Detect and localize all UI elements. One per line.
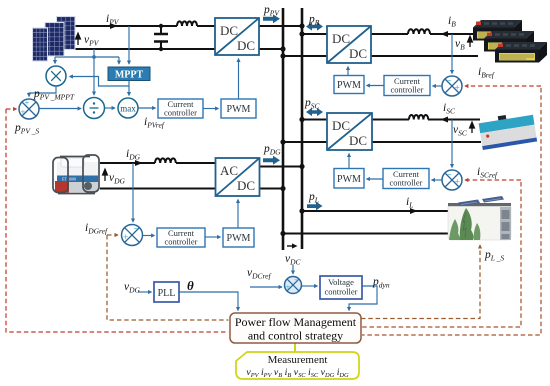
svg-text:controller: controller xyxy=(390,85,423,95)
svg-text:PWM: PWM xyxy=(227,104,251,115)
svg-text:DC: DC xyxy=(332,118,350,133)
svg-text:−: − xyxy=(294,276,299,285)
svg-text:controller: controller xyxy=(164,237,197,247)
svg-text:DC: DC xyxy=(349,46,367,61)
svg-text:+: + xyxy=(123,233,128,243)
svg-text:controller: controller xyxy=(164,108,197,118)
svg-text:+: + xyxy=(286,282,291,292)
svg-text:+: + xyxy=(21,107,26,117)
svg-text:vPV iPV vB iB vSC iSC vDG: vPV iPV vB iB vSC iSC vDG iDG xyxy=(246,367,349,379)
svg-text:DC: DC xyxy=(220,23,238,38)
svg-text:MPPT: MPPT xyxy=(115,70,144,81)
svg-text:ET 3000: ET 3000 xyxy=(62,177,76,182)
svg-text:DC: DC xyxy=(349,133,367,148)
svg-text:−: − xyxy=(447,76,452,86)
svg-text:θ: θ xyxy=(187,278,194,293)
svg-text:DC: DC xyxy=(237,38,255,53)
svg-text:Measurement: Measurement xyxy=(268,354,328,366)
svg-text:PLL: PLL xyxy=(158,288,176,299)
svg-text:+: + xyxy=(25,98,30,108)
svg-text:PWM: PWM xyxy=(337,80,361,91)
svg-text:Power flow Management: Power flow Management xyxy=(235,315,357,329)
svg-text:−: − xyxy=(134,224,139,234)
svg-text:Voltage: Voltage xyxy=(328,277,354,287)
svg-text:DC: DC xyxy=(332,31,350,46)
svg-text:+: + xyxy=(455,178,460,188)
svg-text:controller: controller xyxy=(389,178,422,188)
svg-text:−: − xyxy=(447,170,452,180)
svg-text:max: max xyxy=(120,104,136,114)
svg-text:controller: controller xyxy=(324,287,357,297)
svg-text:AC: AC xyxy=(220,163,238,178)
svg-text:PWM: PWM xyxy=(227,233,251,244)
svg-text:+: + xyxy=(455,84,460,94)
svg-text:PWM: PWM xyxy=(337,174,361,185)
svg-text:DC: DC xyxy=(237,178,255,193)
svg-text:and control strategy: and control strategy xyxy=(248,329,343,343)
